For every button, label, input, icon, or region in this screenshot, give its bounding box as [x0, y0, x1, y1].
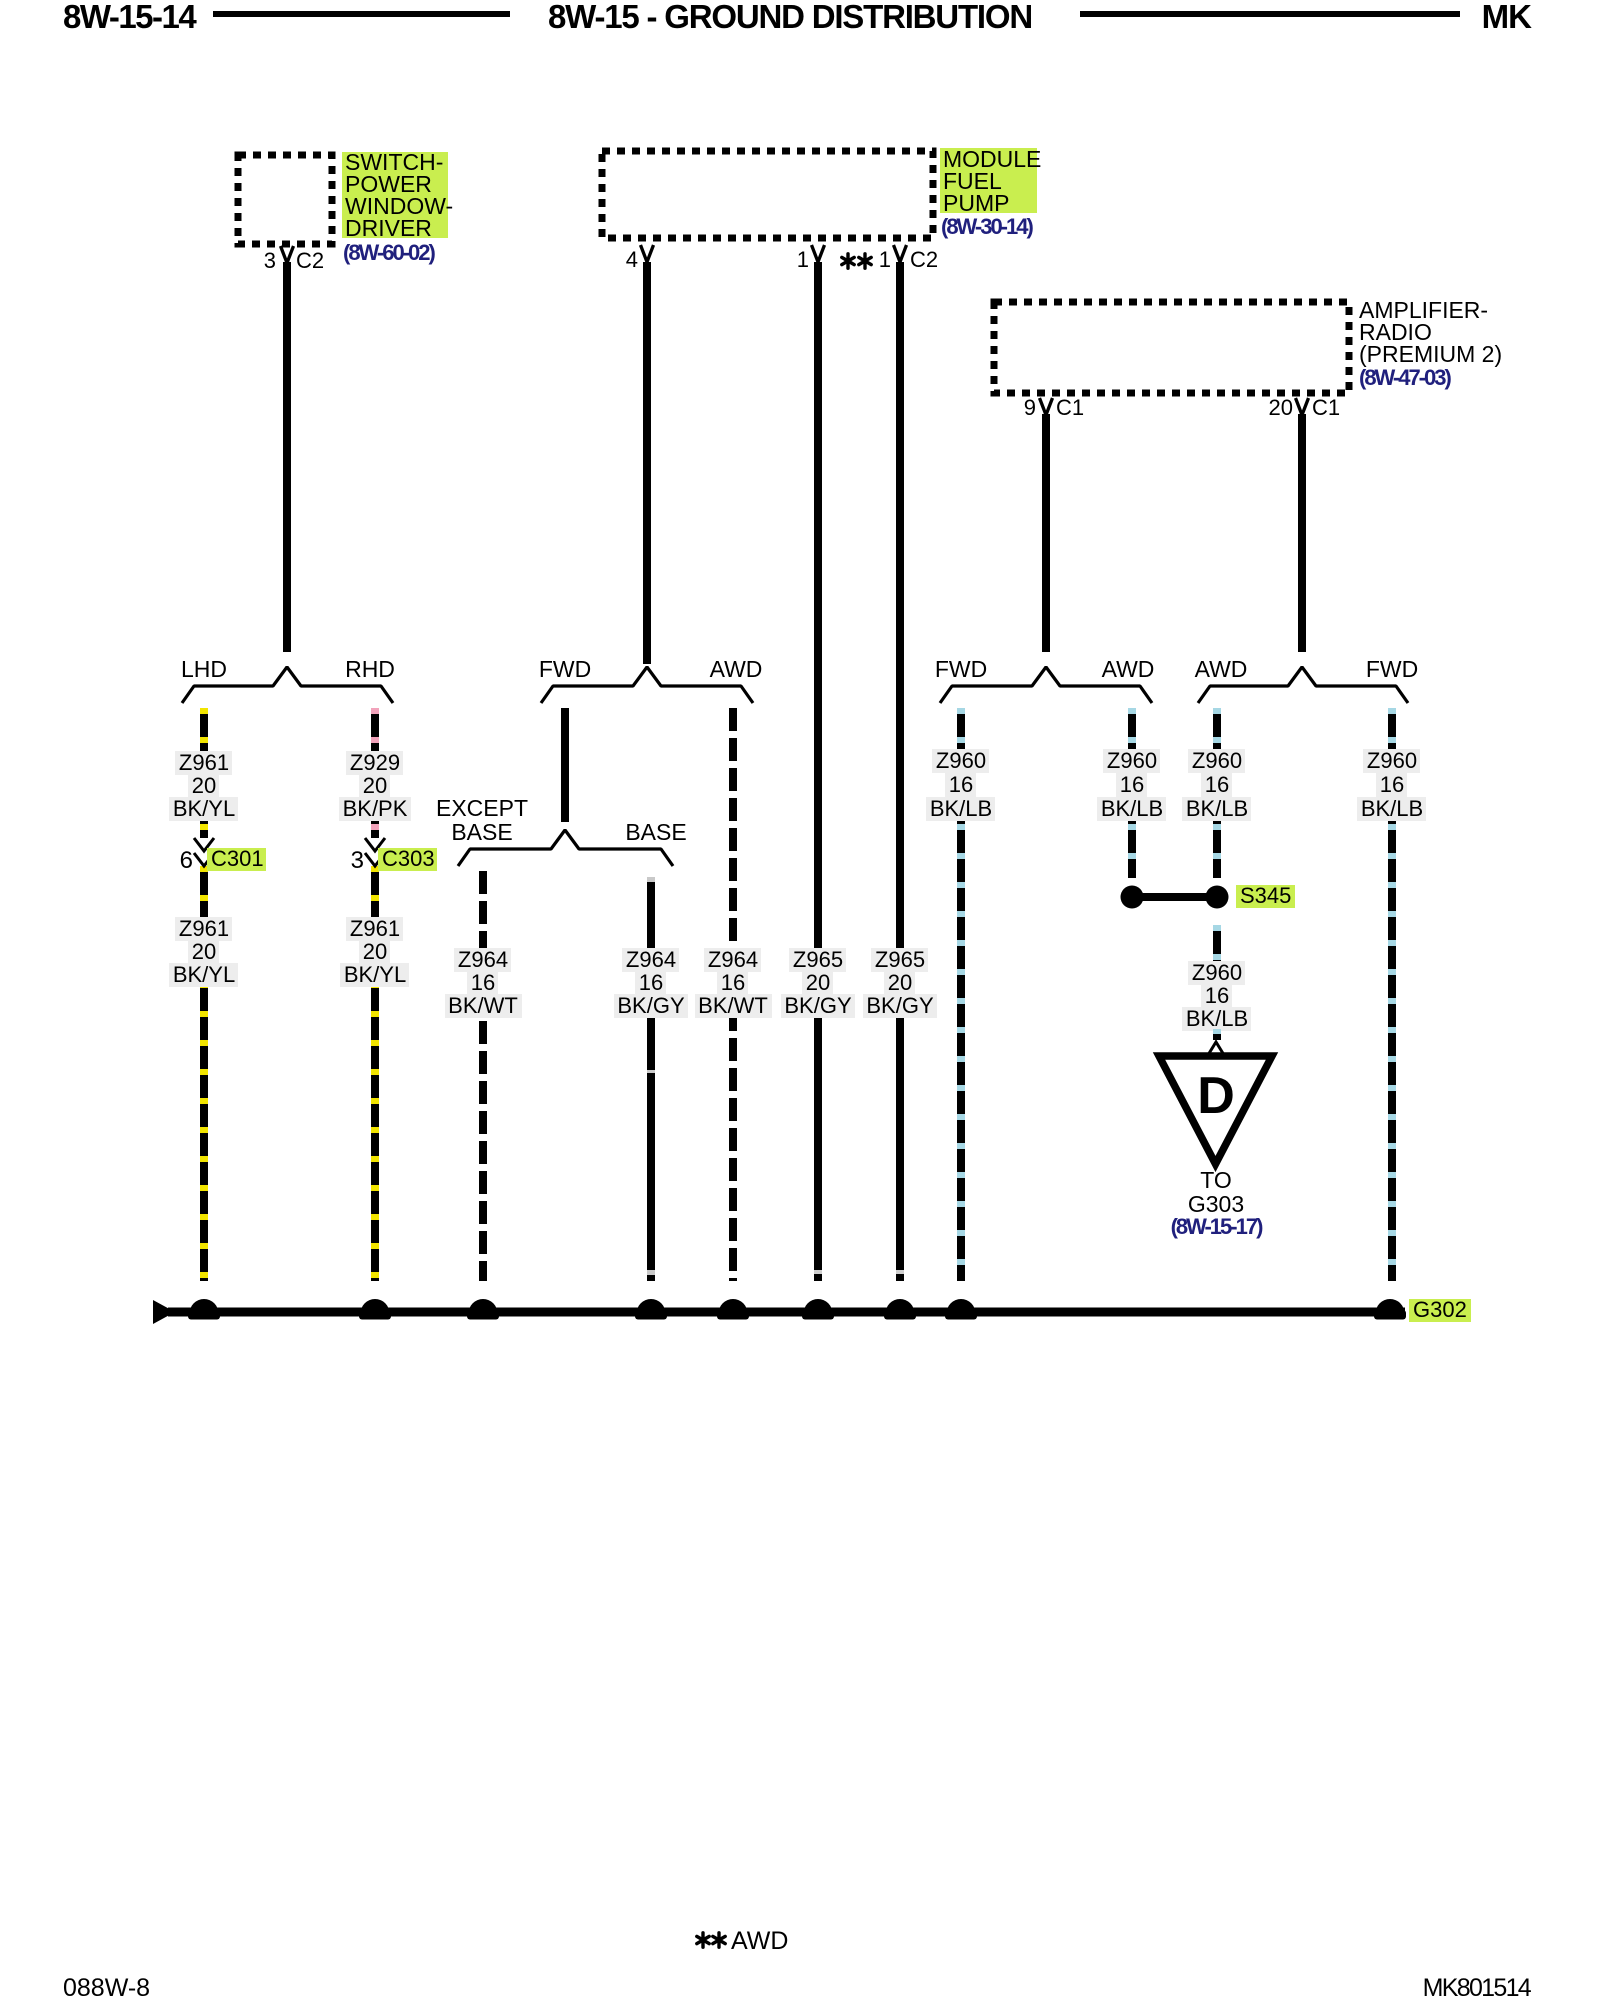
wire label Z961 20 BK/YL (below C303): [346, 917, 403, 941]
wire label Z929 20 BK/PK: [346, 751, 403, 775]
connector box MODULE-FUEL PUMP: [602, 151, 933, 238]
pin 20 C1 of amplifier: [1269, 395, 1341, 420]
wire Z929 BK/PK upper (RHD): [371, 708, 379, 838]
svg-text:BK/LB: BK/LB: [1101, 796, 1163, 821]
svg-text:C303: C303: [382, 846, 435, 871]
svg-text:Z960: Z960: [1107, 748, 1157, 773]
brace FWD/AWD split (fuel pump): [541, 667, 753, 703]
svg-text:16: 16: [1120, 772, 1144, 797]
bus junction at x=204: [188, 1310, 220, 1320]
svg-text:Z960: Z960: [1192, 748, 1242, 773]
wire label Z960 16 BK/LB: [932, 749, 989, 773]
svg-text:Z961: Z961: [179, 916, 229, 941]
svg-text:AWD: AWD: [1102, 656, 1155, 682]
svg-text:Z960: Z960: [1367, 748, 1417, 773]
svg-text:BK/LB: BK/LB: [1186, 1006, 1248, 1031]
svg-text:FWD: FWD: [539, 656, 591, 682]
svg-text:PUMP: PUMP: [943, 190, 1009, 216]
pin ##1 C2 of fuel pump module: [842, 245, 938, 272]
connector C303 pin 3: [351, 838, 437, 874]
svg-text:8W-15-14: 8W-15-14: [63, 0, 197, 35]
svg-text:(PREMIUM 2): (PREMIUM 2): [1359, 341, 1502, 367]
wire label Z964 16 BK/WT: [704, 948, 761, 972]
svg-text:BK/GY: BK/GY: [617, 993, 685, 1018]
svg-text:MK801514: MK801514: [1423, 1974, 1532, 2000]
svg-text:BASE: BASE: [451, 819, 512, 845]
svg-text:Z964: Z964: [626, 947, 676, 972]
bus junction at x=483: [467, 1310, 499, 1320]
svg-text:16: 16: [1205, 983, 1229, 1008]
svg-text:(8W-30-14): (8W-30-14): [941, 214, 1033, 239]
svg-text:BASE: BASE: [625, 819, 686, 845]
wire Z960 BK/LB (FWD, amplifier pin 9): [957, 708, 965, 1281]
wire Z960 BK/LB (AWD, amplifier pin 9): [1128, 708, 1136, 878]
wire Z961 BK/YL lower (LHD): [200, 866, 208, 1281]
wire label Z965 20 BK/GY (pin 1): [789, 948, 846, 972]
splice S345: [1121, 883, 1296, 909]
svg-text:9: 9: [1024, 395, 1036, 420]
brace FWD/AWD split (amplifier pin 9): [940, 667, 1152, 703]
wire Z965 from fuel pump pin 1 C2: [896, 262, 904, 1281]
svg-text:3: 3: [351, 847, 364, 874]
svg-text:G302: G302: [1413, 1297, 1467, 1322]
svg-text:LHD: LHD: [181, 656, 227, 682]
svg-text:BK/WT: BK/WT: [448, 993, 518, 1018]
svg-text:MK: MK: [1482, 0, 1532, 35]
wire FWD (fuel pump pin 4, forward drive): [561, 708, 569, 822]
svg-text:S345: S345: [1240, 883, 1291, 908]
pin 9 C1 of amplifier: [1024, 395, 1084, 420]
svg-text:TO: TO: [1200, 1167, 1232, 1193]
svg-text:8W-15 - GROUND DISTRIBUTION: 8W-15 - GROUND DISTRIBUTION: [548, 0, 1032, 35]
svg-text:D: D: [1197, 1067, 1235, 1125]
wire Z964 BK/WT (AWD): [729, 708, 737, 1281]
svg-text:BK/LB: BK/LB: [1186, 796, 1248, 821]
svg-text:Z965: Z965: [793, 947, 843, 972]
label AMPLIFIER-RADIO (PREMIUM 2): [1359, 297, 1502, 367]
label MODULE-FUEL PUMP: [940, 146, 1041, 216]
svg-text:AWD: AWD: [710, 656, 763, 682]
svg-text:Z964: Z964: [708, 947, 758, 972]
pin 1 of fuel pump module: [797, 245, 825, 272]
ground bus arrow: [153, 1300, 175, 1324]
svg-text:C1: C1: [1056, 395, 1084, 420]
wire label Z960 16 BK/LB: [1363, 749, 1420, 773]
svg-text:3: 3: [264, 248, 276, 273]
svg-text:FWD: FWD: [1366, 656, 1418, 682]
svg-text:1: 1: [797, 247, 809, 272]
bus junction at x=651: [635, 1310, 667, 1320]
svg-text:20: 20: [363, 773, 387, 798]
svg-text:BK/LB: BK/LB: [930, 796, 992, 821]
wire from amplifier pin 9: [1042, 414, 1050, 652]
svg-text:AWD: AWD: [1195, 656, 1248, 682]
svg-text:BK/PK: BK/PK: [343, 796, 408, 821]
svg-text:Z960: Z960: [936, 748, 986, 773]
wire Z964 BK/GY (base): [647, 877, 655, 1281]
wire label Z961 20 BK/YL: [175, 751, 232, 775]
connector box AMPLIFIER-RADIO (PREMIUM 2): [994, 302, 1349, 393]
svg-text:BK/GY: BK/GY: [784, 993, 852, 1018]
connector box SWITCH-POWER WINDOW-DRIVER: [238, 155, 332, 244]
ground bus wire: [168, 1308, 1405, 1317]
svg-text:6: 6: [180, 847, 193, 874]
bus junction at x=733: [717, 1310, 749, 1320]
wire from switch pin 3: [283, 262, 291, 652]
svg-text:4: 4: [626, 247, 638, 272]
svg-text:Z961: Z961: [350, 916, 400, 941]
wire Z965 from fuel pump pin 1: [814, 262, 822, 1281]
label SWITCH-POWER WINDOW-DRIVER: [342, 149, 453, 241]
svg-text:20: 20: [363, 939, 387, 964]
svg-text:1: 1: [879, 247, 891, 272]
svg-text:BK/GY: BK/GY: [866, 993, 934, 1018]
svg-text:088W-8: 088W-8: [63, 1974, 150, 2000]
svg-text:AWD: AWD: [731, 1927, 788, 1955]
wire Z960 BK/LB (FWD, amplifier pin 20): [1388, 708, 1396, 1281]
svg-text:C1: C1: [1312, 395, 1340, 420]
svg-text:Z964: Z964: [458, 947, 508, 972]
wire Z961 BK/YL lower (RHD): [371, 866, 379, 1281]
connector C301 pin 6: [180, 838, 266, 874]
svg-text:20: 20: [1269, 395, 1293, 420]
svg-text:(8W-47-03): (8W-47-03): [1359, 365, 1451, 390]
wire label Z964 16 BK/WT: [454, 948, 511, 972]
bus junction at x=961: [945, 1310, 977, 1320]
wire label Z960 16 BK/LB: [1188, 749, 1245, 773]
svg-text:(8W-60-02): (8W-60-02): [343, 240, 435, 265]
footnote ## AWD: [697, 1927, 789, 1955]
svg-text:16: 16: [1380, 772, 1404, 797]
svg-text:BK/YL: BK/YL: [173, 796, 235, 821]
svg-text:C301: C301: [211, 846, 264, 871]
wire Z964 BK/WT (except base): [479, 871, 487, 1281]
bus junction at x=1390: [1374, 1310, 1406, 1320]
label EXCEPT BASE: [436, 795, 528, 845]
wire Z961 BK/YL upper (LHD): [200, 708, 208, 838]
svg-text:16: 16: [639, 970, 663, 995]
svg-text:BK/WT: BK/WT: [698, 993, 768, 1018]
svg-text:C2: C2: [296, 248, 324, 273]
ground symbol D (to G303): [1159, 1056, 1272, 1164]
svg-text:16: 16: [949, 772, 973, 797]
svg-text:20: 20: [192, 939, 216, 964]
wire label Z964 16 BK/GY: [622, 948, 679, 972]
wire from amplifier pin 20: [1298, 414, 1306, 652]
svg-text:16: 16: [721, 970, 745, 995]
svg-text:20: 20: [806, 970, 830, 995]
ground G302: [1409, 1297, 1471, 1322]
wire Z960 BK/LB below S345: [1213, 925, 1221, 1040]
svg-text:Z929: Z929: [350, 750, 400, 775]
brace LHD/RHD split: [182, 667, 393, 703]
svg-text:BK/LB: BK/LB: [1361, 796, 1423, 821]
svg-text:Z960: Z960: [1192, 960, 1242, 985]
wire label Z960 16 BK/LB: [1188, 961, 1245, 985]
svg-text:16: 16: [1205, 772, 1229, 797]
svg-text:BK/YL: BK/YL: [344, 962, 406, 987]
svg-text:EXCEPT: EXCEPT: [436, 795, 528, 821]
header rule left: [213, 11, 510, 17]
svg-text:RHD: RHD: [345, 656, 395, 682]
brace AWD/FWD split (amplifier pin 20): [1198, 667, 1408, 703]
pin 4 of fuel pump module: [626, 245, 654, 272]
bus junction at x=818: [802, 1310, 834, 1320]
bus junction at x=375: [359, 1310, 391, 1320]
brace EXCEPT BASE / BASE split: [458, 830, 673, 866]
svg-text:16: 16: [471, 970, 495, 995]
svg-text:20: 20: [192, 773, 216, 798]
terminal chevron above ground symbol: [1213, 1029, 1221, 1034]
header rule right: [1080, 11, 1460, 17]
label TO G303: [1188, 1167, 1244, 1217]
svg-text:C2: C2: [910, 247, 938, 272]
svg-text:DRIVER: DRIVER: [345, 215, 432, 241]
wire from fuel pump pin 4: [643, 262, 651, 664]
svg-text:20: 20: [888, 970, 912, 995]
wire Z960 BK/LB (AWD, amplifier pin 20): [1213, 708, 1221, 878]
svg-text:FWD: FWD: [935, 656, 987, 682]
wire label Z965 20 BK/GY (pin 1 C2): [871, 948, 928, 972]
svg-text:BK/YL: BK/YL: [173, 962, 235, 987]
svg-text:Z965: Z965: [875, 947, 925, 972]
wire label Z960 16 BK/LB: [1103, 749, 1160, 773]
pin 3 C2 of switch: [264, 246, 324, 273]
bus junction at x=900: [884, 1310, 916, 1320]
wire label Z961 20 BK/YL (below C301): [175, 917, 232, 941]
svg-text:Z961: Z961: [179, 750, 229, 775]
svg-text:(8W-15-17): (8W-15-17): [1171, 1214, 1263, 1239]
